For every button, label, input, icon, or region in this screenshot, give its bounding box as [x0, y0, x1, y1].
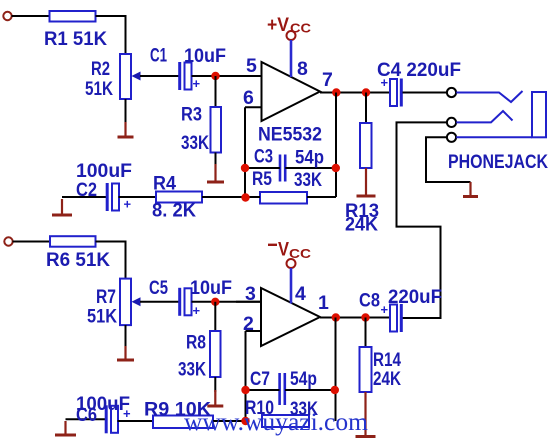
svg-text:8: 8: [297, 58, 308, 80]
svg-text:C3: C3: [254, 147, 273, 168]
svg-text:R14: R14: [373, 350, 401, 371]
svg-text:1: 1: [318, 292, 329, 314]
svg-text:NE5532: NE5532: [258, 125, 322, 146]
svg-text:51K: 51K: [87, 307, 117, 328]
svg-text:www.wuyazi.com: www.wuyazi.com: [184, 409, 369, 436]
svg-text:24K: 24K: [373, 369, 401, 390]
svg-text:R8: R8: [186, 333, 206, 354]
svg-text:33K: 33K: [181, 133, 209, 154]
svg-text:C7: C7: [250, 369, 270, 390]
svg-text:C4 220uF: C4 220uF: [377, 60, 461, 81]
svg-text:33K: 33K: [294, 170, 322, 191]
svg-text:10uF: 10uF: [184, 46, 226, 67]
svg-text:C6: C6: [76, 405, 97, 426]
svg-text:V: V: [278, 240, 289, 261]
svg-text:R7: R7: [96, 287, 116, 308]
svg-text:+: +: [193, 76, 201, 91]
svg-text:R4: R4: [153, 174, 176, 195]
svg-text:+: +: [193, 303, 201, 318]
svg-text:6: 6: [243, 87, 254, 109]
svg-text:8. 2K: 8. 2K: [152, 201, 196, 222]
svg-text:R5: R5: [252, 169, 272, 190]
svg-text:+: +: [124, 197, 132, 212]
svg-text:C2: C2: [76, 180, 97, 201]
svg-text:220uF: 220uF: [388, 287, 442, 308]
svg-text:C5: C5: [149, 278, 168, 299]
svg-text:R2: R2: [91, 59, 110, 80]
svg-text:5: 5: [246, 55, 257, 77]
svg-text:R1 51K: R1 51K: [44, 29, 107, 50]
svg-text:PHONEJACK: PHONEJACK: [448, 152, 548, 173]
svg-text:C1: C1: [150, 46, 167, 67]
svg-text:+V: +V: [267, 15, 289, 36]
svg-text:51K: 51K: [85, 79, 113, 100]
svg-text:C8: C8: [359, 291, 380, 312]
svg-text:33K: 33K: [178, 360, 206, 381]
svg-text:100uF: 100uF: [76, 161, 132, 182]
svg-text:54p: 54p: [295, 148, 324, 169]
svg-text:7: 7: [322, 69, 333, 91]
svg-text:10uF: 10uF: [190, 278, 232, 299]
svg-text:4: 4: [295, 283, 306, 305]
svg-text:24K: 24K: [345, 215, 378, 236]
svg-text:R3: R3: [181, 105, 202, 126]
svg-text:54p: 54p: [290, 369, 317, 390]
svg-text:R6 51K: R6 51K: [46, 250, 110, 271]
